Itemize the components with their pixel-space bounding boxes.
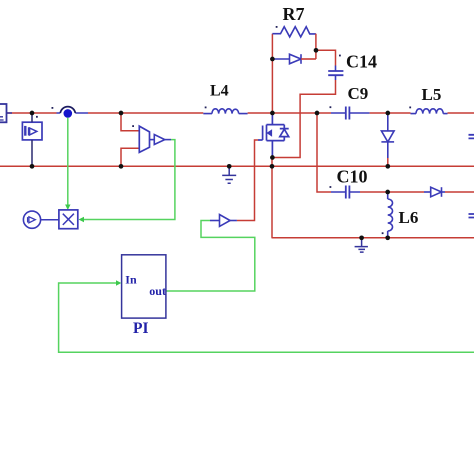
svg-text:C10: C10 — [337, 167, 368, 187]
capacitor C14 — [328, 66, 343, 81]
wire comparator upper input — [121, 113, 139, 131]
wire VDC to rail — [7, 112, 13, 114]
wire gate drive — [237, 140, 258, 221]
wire top rail right segment — [448, 112, 474, 114]
wire ground drop from MOSFET source to bottom rail — [271, 158, 273, 238]
wire top rail left segment — [7, 112, 57, 114]
svg-text:C14: C14 — [346, 52, 377, 72]
comparator U1 — [139, 126, 149, 152]
wire C10 to diode — [360, 191, 424, 193]
wire comparator lower input — [121, 148, 139, 166]
output cap plates right edge top — [469, 135, 474, 139]
svg-text:L4: L4 — [210, 83, 229, 100]
wire C14 branch top — [316, 50, 336, 65]
output cap plates right edge bottom — [469, 214, 474, 218]
wire mid rail — [0, 165, 474, 167]
wire sensor bottom — [31, 140, 33, 166]
wire sensor top — [31, 113, 33, 122]
svg-text:PI: PI — [133, 320, 149, 337]
gating buffer U3 — [210, 215, 237, 227]
inductor L4 — [203, 109, 247, 114]
wire C14 return to source — [272, 80, 335, 158]
inductor L6 — [388, 192, 393, 238]
snubber left leg — [271, 34, 273, 113]
wire diode to edge — [445, 191, 474, 193]
svg-text:In: In — [125, 272, 137, 286]
mosfet Q1 — [258, 113, 289, 158]
wire top rail sensor stubs — [57, 112, 89, 114]
diode D2 output — [424, 187, 445, 197]
wire top rail after C9 — [370, 112, 411, 114]
current sensor IS1 — [60, 107, 75, 118]
wire C10 branch drop — [317, 113, 331, 192]
gating buffer U2 — [150, 135, 172, 145]
resistor R7 — [272, 27, 316, 37]
ground G1 mid rail — [222, 166, 236, 183]
wire feedback green — [59, 283, 474, 352]
wire U2 output green — [84, 140, 175, 220]
arrow into multiplier top — [65, 205, 70, 211]
voltage sensor VS1 — [22, 122, 42, 140]
wire sensor output green down — [67, 118, 69, 206]
wire R7 right leg — [315, 34, 317, 59]
capacitor C9 — [331, 107, 370, 120]
multiplier M1 — [59, 210, 78, 229]
ground G2 bottom rail — [355, 238, 368, 252]
DC source VDC (left edge) — [0, 104, 7, 122]
wire probe to multiplier — [41, 219, 59, 221]
svg-text:R7: R7 — [283, 4, 305, 24]
reference probe circle — [23, 211, 40, 228]
diode D1 freewheeling — [381, 113, 394, 158]
arrow into multiplier right — [79, 217, 85, 222]
diode D3 snubber — [272, 54, 316, 64]
wire D1 to mid rail — [387, 158, 389, 166]
wire top rail mid segment — [88, 112, 203, 114]
svg-text:out: out — [149, 284, 166, 298]
inductor L5 — [411, 109, 448, 114]
svg-text:C9: C9 — [348, 84, 369, 103]
wire top rail after L4 — [248, 112, 331, 114]
capacitor C10 — [331, 186, 360, 199]
wire bottom rail — [272, 237, 474, 239]
svg-text:L6: L6 — [399, 208, 419, 227]
PI controller block — [122, 255, 166, 318]
wire PI out to U3 green — [166, 221, 255, 292]
svg-text:L5: L5 — [422, 85, 442, 104]
polarity marks — [36, 26, 411, 234]
arrow into PI In — [116, 280, 121, 285]
